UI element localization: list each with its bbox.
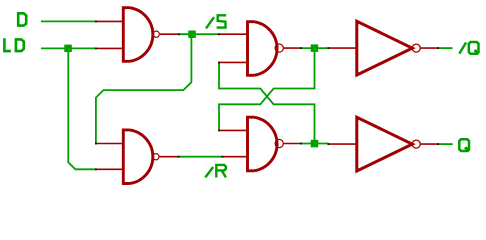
pin connection dot D stub: [95, 21, 97, 23]
inverter U6 body: [357, 117, 413, 171]
wire net D from label to gate U1 pin: [41, 20, 96, 22]
pin connection dot U6 input: [328, 143, 330, 145]
pin connection dot U3 output: [300, 143, 302, 145]
inverter U5 pin stub input: [328, 47, 356, 49]
nand U2 body: [248, 22, 278, 76]
nand U4 output bubble: [153, 154, 159, 160]
label /S letter S: [217, 15, 227, 27]
nand U2 pin stub output: [284, 47, 301, 49]
label LD letter D: [16, 39, 24, 51]
wire cross-coupled feedback U2 lower input to U3 output: [219, 62, 315, 143]
nand U1 output bubble: [153, 31, 159, 37]
pin connection dot U3 lower input: [222, 156, 224, 158]
nand U3 output bubble: [275, 139, 283, 147]
inverter U6 pin stub output: [421, 143, 438, 145]
label D: [18, 13, 26, 25]
label /Q slash: [459, 43, 466, 54]
label /R letter R: [216, 165, 226, 178]
nand U4 pin stub output: [160, 156, 179, 158]
pin connection dot LD stub: [95, 48, 97, 50]
pin connection dot U5 output: [437, 47, 439, 49]
pin connection dot U1 output: [178, 33, 180, 35]
label LD letter L: [4, 38, 10, 51]
pin connection dot U2 lower input: [218, 62, 220, 64]
nand U2 pin stub upper input /S: [219, 33, 247, 35]
nand U2 output bubble: [275, 44, 283, 52]
nand U3 pin stub lower input /R: [222, 156, 246, 158]
node junction LD: [64, 45, 72, 53]
node junction /S: [188, 31, 196, 39]
label /S slash: [206, 17, 214, 28]
nand U4 pin stub upper input: [96, 143, 123, 145]
wire net /S branch down-left to gate U4 upper input: [96, 34, 191, 143]
wire net /Q from inverter U5 output: [438, 47, 453, 49]
pin connection dot U4 upper input: [95, 143, 97, 145]
pin connection dot U3 upper input: [218, 130, 220, 132]
pin connection dot U5 input: [328, 47, 330, 49]
pin connection dot U2 upper input: [218, 33, 220, 35]
nand U1 body: [123, 8, 153, 62]
inverter U6 pin stub input: [328, 143, 356, 145]
nand U1 pin stub input D: [96, 20, 123, 22]
wire net LD vertical branch down to gate U4 lower input: [68, 48, 96, 169]
pin connection dot U6 output: [437, 143, 439, 145]
wire net /R from U4 output to U3 lower input: [179, 156, 223, 158]
nand U4 pin stub lower input: [96, 168, 123, 170]
pin connection dot U4 output: [178, 156, 180, 158]
pin connection dot U2 output: [300, 47, 302, 49]
nand U3 pin stub upper input: [219, 129, 247, 131]
wire net from U2 output junction to inverter U5 input: [301, 47, 328, 49]
nand U3 pin stub output: [283, 143, 301, 145]
inverter U5 output bubble: [412, 44, 420, 52]
nand U4 body: [123, 130, 153, 184]
label /R slash: [205, 167, 213, 177]
wire net from U3 output junction to inverter U6 input: [301, 143, 328, 145]
inverter U5 body: [357, 21, 413, 75]
wire net LD from label to gate U1 pin: [41, 47, 96, 49]
label Q: [459, 139, 469, 151]
nand U1 pin stub output: [160, 33, 179, 35]
wire net /S horizontal from U1 output to U2 input: [179, 33, 219, 35]
label /Q letter Q: [469, 42, 479, 54]
node junction U3 output: [311, 140, 319, 148]
wire cross-coupled feedback U2 output to U3 upper input: [219, 48, 315, 130]
node junction U2 output: [311, 44, 319, 52]
nand U2 pin stub lower input: [219, 61, 247, 63]
wire net Q from inverter U6 output: [438, 143, 453, 145]
inverter U6 output bubble: [412, 140, 420, 148]
nand U3 body: [248, 117, 278, 171]
pin connection dot U4 lower input: [95, 168, 97, 170]
nand U1 pin stub input LD: [96, 47, 123, 49]
inverter U5 pin stub output: [421, 47, 438, 49]
